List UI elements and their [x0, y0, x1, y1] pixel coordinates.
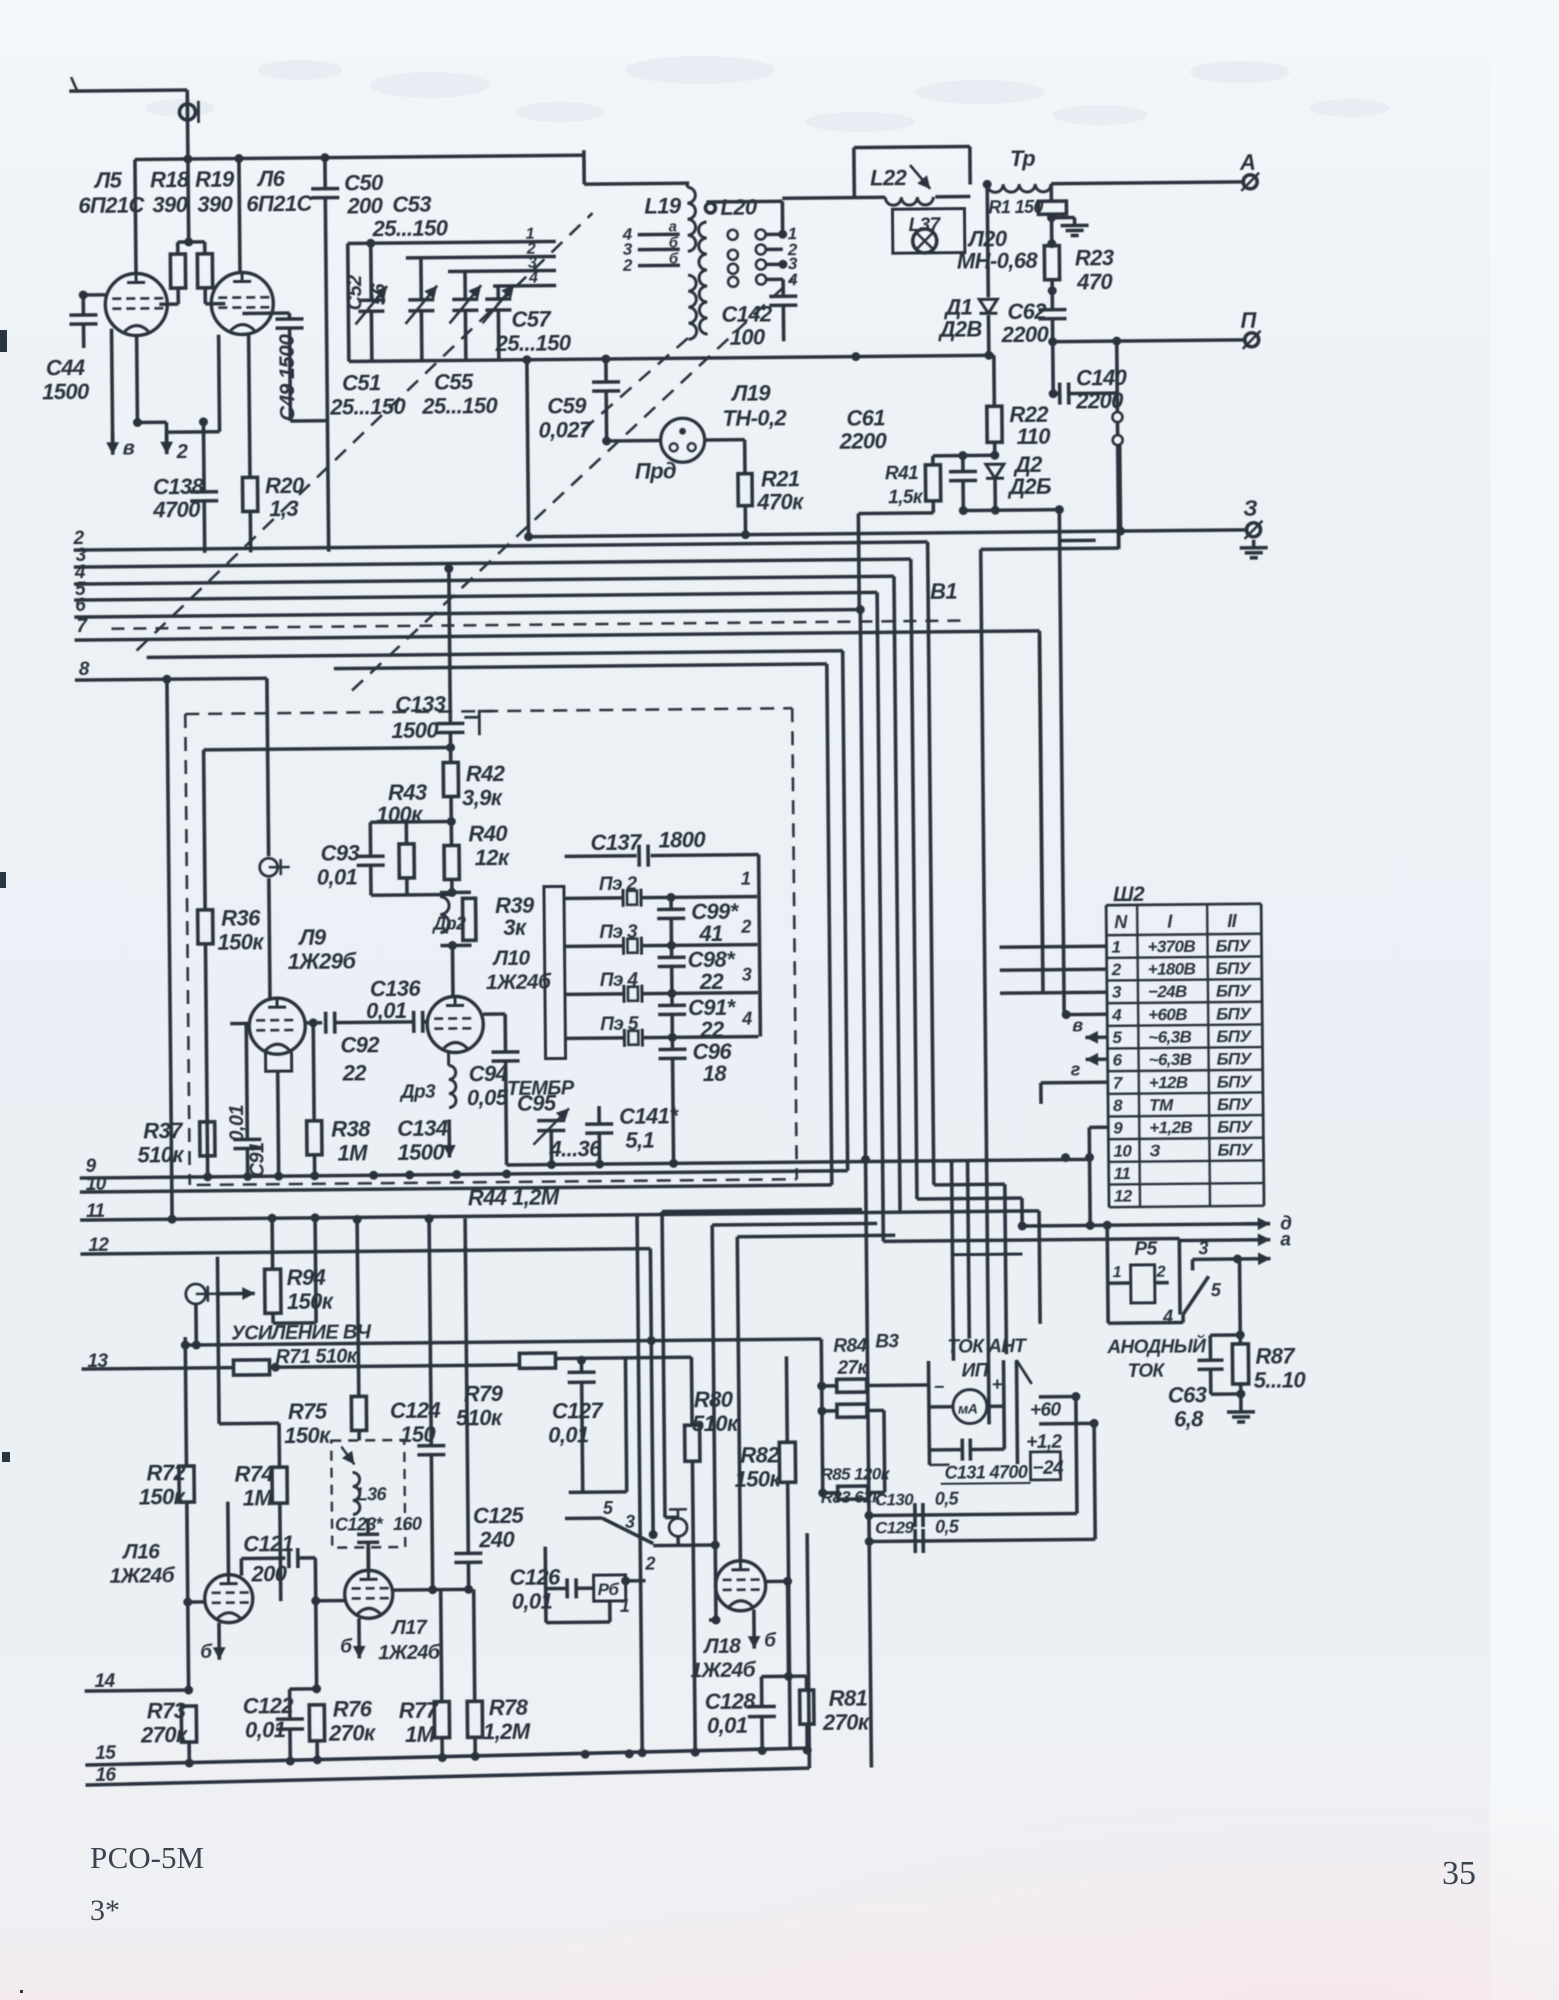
svg-text:Д2В: Д2В	[937, 316, 982, 341]
svg-text:160: 160	[393, 1514, 422, 1534]
svg-text:Л5: Л5	[93, 168, 123, 193]
svg-text:4700: 4700	[152, 497, 201, 522]
svg-text:С128: С128	[705, 1689, 757, 1714]
svg-text:С142: С142	[721, 301, 773, 326]
svg-text:3: 3	[1198, 1238, 1208, 1258]
svg-text:АНОДНЫЙ: АНОДНЫЙ	[1106, 1335, 1206, 1358]
svg-text:25...150: 25...150	[371, 215, 448, 241]
svg-text:Л19: Л19	[730, 380, 771, 405]
svg-text:6: 6	[1113, 1051, 1123, 1070]
svg-text:1800: 1800	[658, 827, 706, 852]
svg-text:R38: R38	[331, 1116, 371, 1141]
svg-text:Л10: Л10	[491, 947, 530, 970]
svg-text:14: 14	[94, 1671, 115, 1692]
svg-text:12к: 12к	[475, 845, 512, 870]
svg-text:а: а	[669, 218, 677, 235]
svg-text:1,2М: 1,2М	[483, 1719, 531, 1744]
svg-text:R74: R74	[234, 1461, 273, 1486]
svg-text:1Ж24б: 1Ж24б	[378, 1642, 441, 1665]
svg-text:в: в	[123, 438, 135, 460]
svg-text:R87: R87	[1255, 1343, 1296, 1368]
svg-text:0,01: 0,01	[548, 1422, 589, 1447]
svg-text:С133: С133	[395, 692, 446, 717]
svg-text:25...150: 25...150	[329, 394, 406, 420]
svg-text:12: 12	[1114, 1187, 1133, 1206]
svg-text:240: 240	[478, 1527, 516, 1552]
svg-text:С140: С140	[1076, 365, 1128, 390]
svg-text:С59: С59	[547, 393, 587, 418]
svg-text:150к: 150к	[287, 1289, 335, 1314]
svg-text:~6,3В: ~6,3В	[1148, 1027, 1191, 1046]
svg-text:R85 120к: R85 120к	[820, 1464, 890, 1484]
svg-text:2: 2	[644, 1554, 655, 1574]
svg-text:R40: R40	[468, 821, 508, 846]
svg-text:−24: −24	[1032, 1458, 1064, 1479]
svg-text:ТМ: ТМ	[1149, 1096, 1174, 1115]
svg-text:2: 2	[622, 256, 633, 275]
svg-text:С129: С129	[875, 1518, 915, 1537]
svg-text:R41: R41	[885, 463, 918, 484]
svg-text:470к: 470к	[756, 489, 805, 514]
svg-text:5: 5	[1112, 1028, 1122, 1047]
svg-text:С123*: С123*	[335, 1514, 384, 1534]
svg-text:R78: R78	[489, 1695, 529, 1720]
svg-text:270к: 270к	[140, 1722, 189, 1747]
svg-text:Пэ 3: Пэ 3	[599, 922, 638, 943]
svg-text:Др3: Др3	[399, 1082, 436, 1103]
svg-text:2: 2	[740, 917, 751, 937]
svg-text:+: +	[992, 1374, 1003, 1394]
svg-text:С141*: С141*	[619, 1103, 679, 1129]
svg-text:1Ж24б: 1Ж24б	[690, 1659, 756, 1683]
svg-text:8: 8	[79, 659, 90, 680]
svg-text:R75: R75	[288, 1399, 328, 1424]
svg-text:С134: С134	[397, 1116, 448, 1141]
svg-text:2200: 2200	[1001, 322, 1050, 347]
svg-text:+180В: +180В	[1148, 959, 1196, 978]
svg-text:510к: 510к	[137, 1142, 185, 1167]
svg-text:УСИЛЕНИЕ ВЧ: УСИЛЕНИЕ ВЧ	[231, 1321, 372, 1344]
svg-text:−24В: −24В	[1148, 982, 1187, 1001]
svg-text:С131 4700: С131 4700	[944, 1462, 1027, 1483]
svg-text:L36: L36	[357, 1484, 388, 1504]
svg-text:22: 22	[699, 969, 725, 994]
svg-text:С50: С50	[344, 170, 384, 195]
svg-text:1: 1	[620, 1596, 630, 1616]
svg-text:г: г	[1071, 1059, 1081, 1079]
svg-text:С137: С137	[590, 830, 643, 856]
svg-text:С125: С125	[473, 1503, 525, 1528]
svg-text:R42: R42	[466, 761, 506, 786]
svg-text:510к: 510к	[692, 1411, 740, 1436]
svg-text:Прд: Прд	[635, 458, 676, 483]
svg-text:С53: С53	[392, 192, 431, 217]
svg-text:С124: С124	[390, 1398, 441, 1423]
svg-text:R77: R77	[399, 1698, 440, 1723]
svg-text:R1 150: R1 150	[988, 197, 1043, 218]
svg-text:0,01: 0,01	[245, 1717, 286, 1742]
svg-text:З: З	[1243, 496, 1257, 521]
svg-text:R84: R84	[833, 1336, 867, 1357]
svg-text:БПУ: БПУ	[1217, 1095, 1253, 1114]
svg-text:1М: 1М	[337, 1140, 368, 1165]
svg-text:Пэ 4: Пэ 4	[600, 970, 639, 991]
svg-text:1,5к: 1,5к	[888, 487, 924, 508]
svg-text:Ш2: Ш2	[1113, 883, 1145, 906]
svg-text:27к: 27к	[836, 1358, 868, 1379]
svg-text:9: 9	[1113, 1119, 1123, 1138]
svg-text:С49 1500: С49 1500	[276, 334, 300, 421]
svg-text:10: 10	[1113, 1141, 1132, 1160]
svg-text:С122: С122	[243, 1693, 295, 1718]
svg-text:R81: R81	[829, 1686, 868, 1711]
svg-text:3*: 3*	[90, 1894, 120, 1927]
svg-text:150к: 150к	[734, 1466, 782, 1491]
svg-text:200: 200	[250, 1561, 288, 1586]
svg-text:R21: R21	[761, 466, 800, 491]
svg-text:БПУ: БПУ	[1216, 1027, 1252, 1046]
svg-text:R73: R73	[147, 1698, 186, 1723]
svg-text:4: 4	[528, 270, 538, 287]
svg-text:6П21С: 6П21С	[78, 192, 145, 218]
svg-text:Пэ 2: Пэ 2	[599, 874, 638, 895]
svg-text:8: 8	[1113, 1096, 1123, 1115]
svg-text:R94: R94	[287, 1265, 326, 1290]
svg-text:БПУ: БПУ	[1217, 1140, 1253, 1159]
svg-text:390: 390	[197, 192, 234, 217]
svg-text:5...10: 5...10	[1254, 1367, 1307, 1393]
svg-text:L20: L20	[720, 195, 758, 220]
svg-text:С55: С55	[434, 369, 474, 394]
svg-text:+1,2В: +1,2В	[1149, 1118, 1192, 1137]
svg-text:56: 56	[368, 283, 390, 306]
svg-text:6П21С: 6П21С	[246, 191, 313, 217]
svg-text:Л6: Л6	[256, 166, 286, 191]
svg-text:РСО-5М: РСО-5М	[90, 1840, 204, 1875]
svg-text:С126: С126	[509, 1564, 561, 1589]
svg-text:L22: L22	[870, 165, 908, 190]
svg-text:R83 62к: R83 62к	[821, 1487, 882, 1507]
svg-text:R76: R76	[333, 1696, 373, 1721]
svg-text:−: −	[934, 1377, 945, 1397]
svg-text:390: 390	[152, 192, 189, 217]
svg-text:С57: С57	[511, 307, 552, 332]
svg-text:БПУ: БПУ	[1217, 1117, 1253, 1136]
svg-text:6: 6	[75, 595, 86, 616]
svg-text:25...150: 25...150	[495, 330, 572, 356]
svg-text:БПУ: БПУ	[1217, 1049, 1253, 1068]
svg-text:ИП: ИП	[961, 1360, 988, 1381]
svg-text:1: 1	[1113, 1264, 1122, 1281]
svg-text:L37: L37	[908, 215, 941, 236]
svg-text:С63: С63	[1168, 1382, 1207, 1407]
svg-text:1Ж29б: 1Ж29б	[288, 948, 358, 974]
svg-text:0,01: 0,01	[707, 1713, 748, 1738]
svg-text:Д2Б: Д2Б	[1007, 474, 1051, 499]
svg-text:0,01: 0,01	[226, 1104, 248, 1141]
svg-text:25...150: 25...150	[421, 393, 498, 419]
svg-text:С52: С52	[344, 275, 366, 311]
svg-text:Л18: Л18	[702, 1635, 741, 1658]
svg-text:С51: С51	[342, 370, 381, 395]
svg-text:Др2: Др2	[431, 913, 466, 933]
svg-text:0,5: 0,5	[935, 1517, 960, 1537]
svg-text:1500: 1500	[42, 379, 90, 404]
svg-text:4: 4	[1162, 1307, 1173, 1327]
svg-text:2: 2	[176, 441, 188, 463]
svg-text:+12В: +12В	[1149, 1073, 1188, 1092]
svg-text:1: 1	[741, 869, 751, 889]
svg-text:БПУ: БПУ	[1217, 1072, 1253, 1091]
svg-text:R82: R82	[740, 1442, 780, 1467]
svg-text:БПУ: БПУ	[1216, 981, 1252, 1000]
svg-text:~6,3В: ~6,3В	[1149, 1050, 1192, 1069]
svg-text:R18: R18	[150, 167, 190, 192]
svg-text:Тр: Тр	[1010, 146, 1036, 171]
svg-text:Л17: Л17	[390, 1617, 428, 1639]
svg-text:1500: 1500	[397, 1140, 445, 1165]
svg-text:+60В: +60В	[1148, 1005, 1187, 1024]
svg-text:БПУ: БПУ	[1215, 936, 1251, 955]
svg-text:1М: 1М	[243, 1485, 274, 1510]
svg-text:Л16: Л16	[121, 1540, 160, 1563]
svg-text:3: 3	[742, 965, 752, 985]
svg-text:+60: +60	[1030, 1400, 1062, 1421]
svg-text:С95: С95	[517, 1090, 557, 1115]
svg-text:З: З	[1149, 1141, 1160, 1160]
svg-text:110: 110	[1016, 424, 1051, 449]
svg-text:2: 2	[1111, 960, 1122, 979]
svg-text:+370В: +370В	[1147, 937, 1195, 956]
svg-text:200: 200	[346, 193, 384, 218]
svg-text:0,01: 0,01	[317, 864, 358, 889]
svg-text:С127: С127	[552, 1398, 605, 1424]
svg-text:б: б	[669, 234, 679, 251]
svg-text:R37: R37	[143, 1118, 184, 1143]
svg-text:Пэ 5: Пэ 5	[600, 1014, 639, 1035]
svg-text:18: 18	[703, 1061, 728, 1086]
svg-text:1Ж24б: 1Ж24б	[486, 971, 552, 995]
svg-text:15: 15	[95, 1743, 116, 1764]
svg-text:100: 100	[730, 324, 767, 349]
svg-text:2: 2	[1156, 1264, 1166, 1281]
svg-text:4...36: 4...36	[548, 1136, 602, 1162]
svg-text:3к: 3к	[503, 915, 528, 940]
svg-text:35: 35	[1442, 1855, 1476, 1892]
svg-text:+1,2: +1,2	[1026, 1432, 1062, 1453]
svg-text:С121: С121	[243, 1531, 294, 1556]
svg-text:R36: R36	[221, 905, 261, 930]
svg-text:Л9: Л9	[297, 925, 327, 950]
svg-text:R80: R80	[694, 1387, 734, 1412]
svg-text:С92: С92	[340, 1032, 380, 1057]
svg-text:0,5: 0,5	[935, 1489, 960, 1509]
svg-text:1500: 1500	[391, 718, 439, 743]
svg-text:5,1: 5,1	[625, 1128, 654, 1153]
svg-text:С93: С93	[320, 840, 359, 865]
svg-text:ТОК АНТ: ТОК АНТ	[947, 1336, 1027, 1358]
svg-text:0,05: 0,05	[467, 1085, 509, 1110]
svg-text:С61: С61	[846, 405, 885, 430]
svg-text:ТОК: ТОК	[1127, 1361, 1165, 1382]
svg-text:в: в	[1072, 1015, 1083, 1035]
svg-text:2200: 2200	[839, 428, 888, 453]
svg-text:41: 41	[698, 921, 723, 946]
svg-text:С94: С94	[469, 1061, 508, 1086]
svg-text:R44 1,2М: R44 1,2М	[468, 1184, 560, 1210]
svg-text:С138: С138	[153, 474, 205, 499]
svg-text:470: 470	[1076, 269, 1114, 294]
svg-text:L19: L19	[644, 193, 682, 218]
svg-text:П: П	[1240, 308, 1257, 333]
svg-text:Рб: Рб	[598, 1580, 620, 1599]
svg-text:0,01: 0,01	[366, 998, 407, 1023]
svg-text:1М: 1М	[405, 1722, 436, 1747]
svg-text:б: б	[669, 250, 679, 267]
svg-text:3,9к: 3,9к	[462, 785, 504, 810]
svg-text:1: 1	[1111, 937, 1120, 956]
svg-text:4: 4	[741, 1009, 752, 1029]
svg-text:Р5: Р5	[1134, 1239, 1157, 1260]
svg-text:4: 4	[1111, 1005, 1122, 1024]
svg-text:3: 3	[1112, 983, 1122, 1002]
svg-text:510к: 510к	[456, 1405, 504, 1430]
svg-text:N: N	[1114, 912, 1128, 932]
svg-text:1Ж24б: 1Ж24б	[109, 1564, 175, 1588]
svg-text:мА: мА	[958, 1400, 978, 1416]
svg-text:R19: R19	[195, 167, 235, 192]
svg-text:С91: С91	[246, 1142, 268, 1178]
svg-text:11: 11	[1114, 1164, 1131, 1183]
svg-text:БПУ: БПУ	[1216, 959, 1252, 978]
svg-text:150к: 150к	[284, 1423, 332, 1448]
svg-text:А: А	[1239, 150, 1256, 175]
svg-text:270к: 270к	[328, 1720, 377, 1745]
svg-text:С44: С44	[46, 355, 85, 380]
svg-text:6,8: 6,8	[1174, 1406, 1204, 1431]
svg-text:R72: R72	[146, 1460, 186, 1485]
svg-text:В3: В3	[875, 1331, 899, 1352]
svg-text:150к: 150к	[139, 1484, 187, 1509]
svg-text:22: 22	[342, 1060, 368, 1085]
svg-text:270к: 270к	[822, 1710, 871, 1735]
svg-text:R23: R23	[1075, 245, 1114, 270]
svg-text:150: 150	[400, 1422, 437, 1447]
svg-text:БПУ: БПУ	[1216, 1004, 1252, 1023]
svg-text:а: а	[1280, 1229, 1291, 1250]
svg-text:ТН-0,2: ТН-0,2	[722, 405, 787, 431]
svg-text:150к: 150к	[217, 929, 265, 954]
svg-text:В1: В1	[930, 579, 958, 604]
svg-text:R79: R79	[464, 1381, 504, 1406]
svg-text:МН-0,68: МН-0,68	[957, 248, 1039, 274]
